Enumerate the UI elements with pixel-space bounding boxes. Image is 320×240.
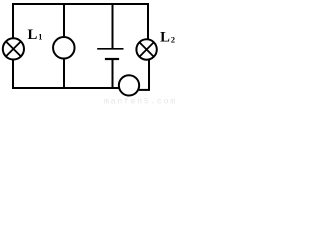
svg-text:L: L xyxy=(28,27,38,43)
svg-text:manfen5.com: manfen5.com xyxy=(104,96,176,105)
svg-text:2: 2 xyxy=(171,35,175,44)
svg-text:L: L xyxy=(160,30,170,46)
svg-text:1: 1 xyxy=(38,33,42,42)
